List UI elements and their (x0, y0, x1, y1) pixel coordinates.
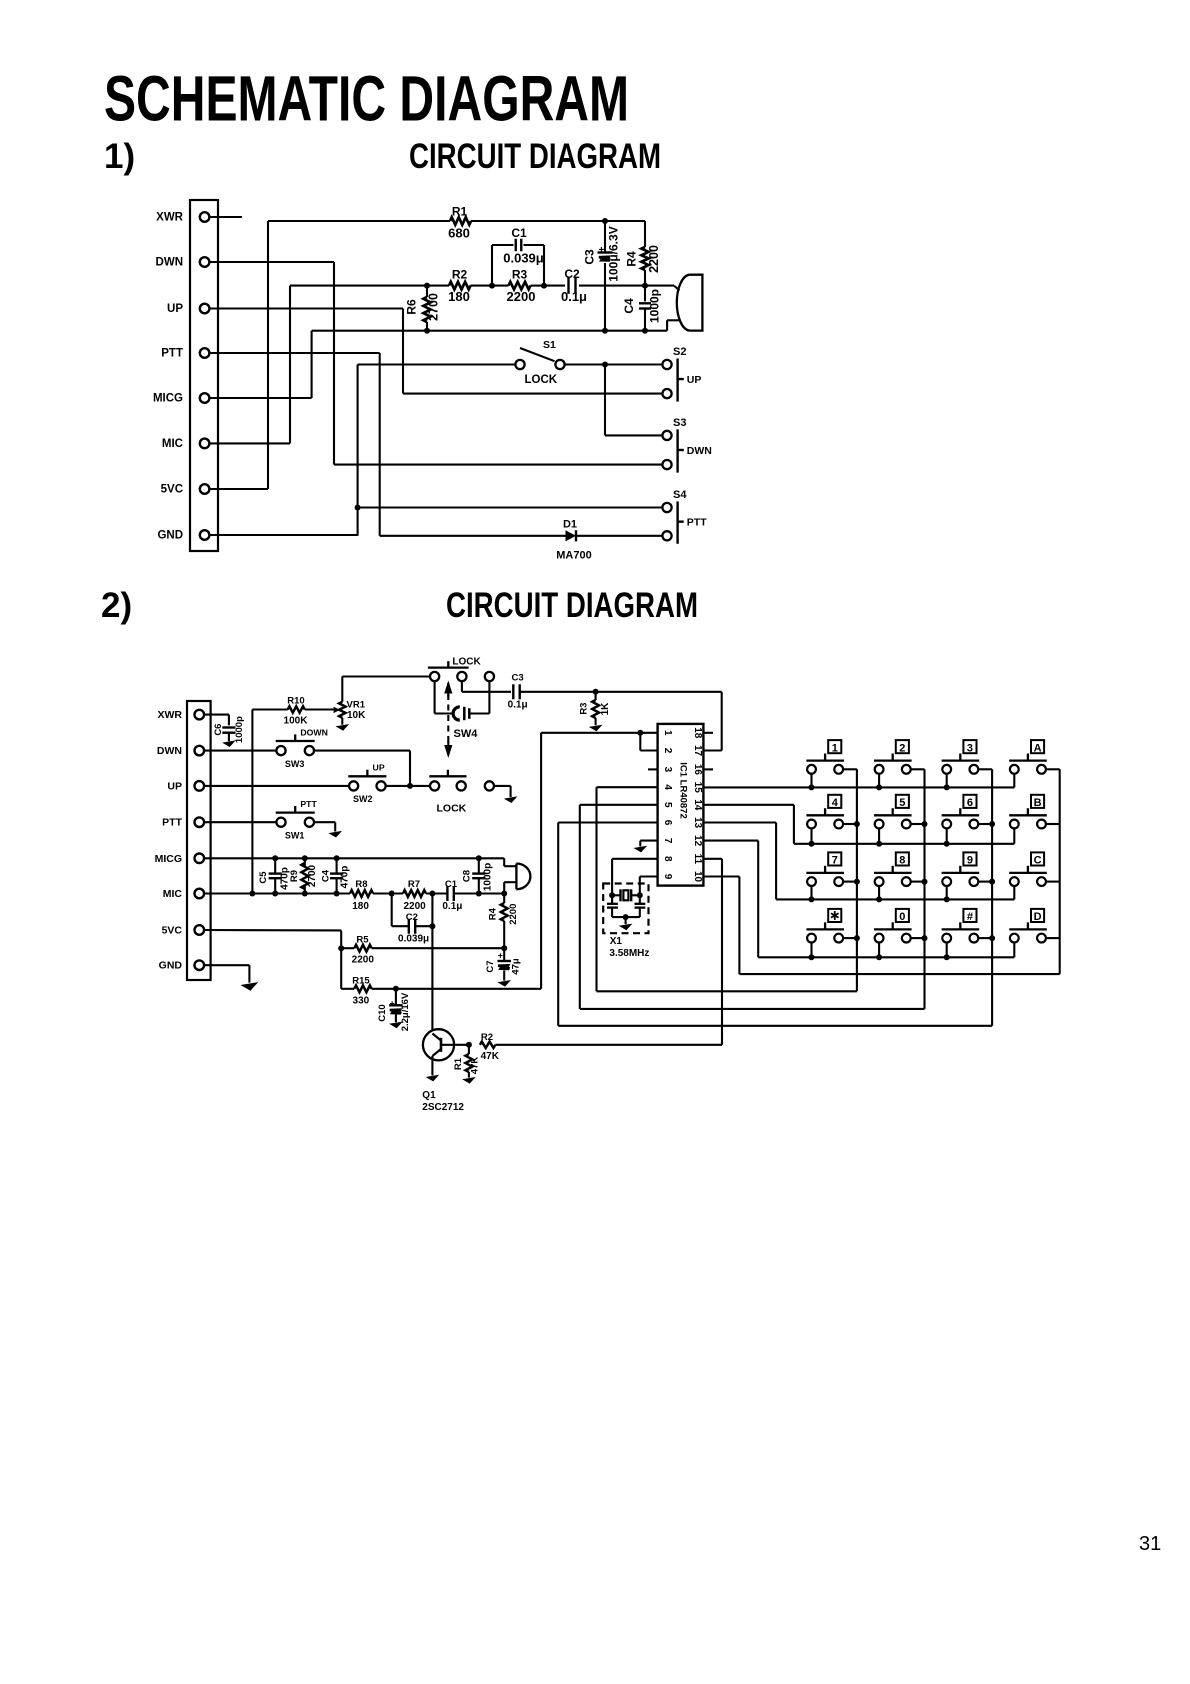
svg-text:XWR: XWR (156, 212, 184, 224)
svg-text:R9: R9 (289, 870, 300, 882)
svg-text:2200: 2200 (508, 904, 519, 925)
svg-text:8: 8 (899, 855, 905, 867)
svg-text:D1: D1 (563, 519, 577, 531)
svg-text:2200: 2200 (647, 245, 661, 273)
svg-text:5VC: 5VC (161, 484, 183, 496)
svg-text:2200: 2200 (352, 955, 375, 966)
svg-text:R2: R2 (481, 1032, 493, 1043)
svg-text:9: 9 (662, 874, 673, 880)
svg-text:Q1: Q1 (422, 1090, 436, 1101)
svg-text:2SC2712: 2SC2712 (422, 1102, 464, 1113)
svg-text:680: 680 (448, 226, 470, 241)
svg-text:R10: R10 (287, 696, 304, 707)
svg-text:47K: 47K (481, 1051, 500, 1062)
svg-text:31: 31 (1139, 1533, 1161, 1555)
svg-text:1000p: 1000p (234, 716, 245, 743)
svg-text:C1: C1 (445, 879, 458, 890)
svg-text:8: 8 (662, 856, 673, 862)
svg-text:1000p: 1000p (648, 289, 662, 323)
svg-text:C: C (1034, 855, 1042, 867)
svg-text:1: 1 (832, 742, 838, 754)
svg-text:R3: R3 (512, 267, 528, 281)
svg-text:R1: R1 (452, 205, 468, 219)
svg-text:IC1 LR40872: IC1 LR40872 (678, 762, 689, 819)
svg-text:2200: 2200 (507, 289, 536, 304)
svg-text:7: 7 (832, 855, 838, 867)
svg-text:3.58MHz: 3.58MHz (609, 948, 649, 959)
svg-text:2): 2) (101, 586, 132, 625)
svg-text:0.039μ: 0.039μ (398, 933, 429, 944)
svg-text:LOCK: LOCK (452, 657, 481, 668)
svg-text:R8: R8 (355, 879, 367, 890)
svg-text:R3: R3 (578, 703, 589, 715)
svg-text:1): 1) (104, 137, 135, 176)
svg-text:S1: S1 (543, 339, 556, 351)
svg-text:0: 0 (899, 911, 905, 923)
svg-text:0.1μ: 0.1μ (508, 700, 528, 711)
svg-text:C3: C3 (512, 673, 524, 684)
svg-text:SCHEMATIC DIAGRAM: SCHEMATIC DIAGRAM (104, 63, 629, 135)
svg-text:SW2: SW2 (353, 794, 373, 804)
svg-text:9: 9 (967, 855, 973, 867)
svg-text:11: 11 (692, 854, 703, 865)
svg-text:C10: C10 (377, 1004, 388, 1021)
svg-text:UP: UP (373, 763, 385, 773)
svg-text:2700: 2700 (307, 864, 318, 887)
svg-text:S4: S4 (673, 489, 687, 501)
svg-text:C3: C3 (583, 249, 597, 265)
svg-text:S3: S3 (673, 417, 686, 429)
svg-text:0.1μ: 0.1μ (561, 289, 587, 304)
svg-text:5VC: 5VC (162, 925, 183, 937)
svg-text:470p: 470p (340, 866, 351, 889)
svg-text:0.1μ: 0.1μ (442, 901, 462, 912)
svg-text:MA700: MA700 (556, 550, 591, 562)
svg-text:1K: 1K (600, 702, 611, 716)
svg-text:UP: UP (167, 303, 183, 315)
svg-text:13: 13 (692, 817, 703, 829)
svg-text:1000p: 1000p (482, 863, 493, 891)
svg-text:2200: 2200 (403, 901, 426, 912)
svg-text:R4: R4 (625, 251, 639, 267)
svg-text:C2: C2 (406, 912, 418, 923)
svg-text:MIC: MIC (162, 438, 183, 450)
svg-text:C8: C8 (462, 870, 473, 882)
svg-text:A: A (1034, 742, 1042, 754)
svg-text:CIRCUIT DIAGRAM: CIRCUIT DIAGRAM (446, 586, 698, 625)
svg-text:C4: C4 (622, 298, 636, 314)
svg-text:MICG: MICG (155, 853, 182, 865)
svg-text:16: 16 (692, 764, 703, 776)
svg-text:CIRCUIT DIAGRAM: CIRCUIT DIAGRAM (409, 137, 661, 176)
svg-text:18: 18 (692, 727, 703, 739)
svg-text:2: 2 (899, 742, 905, 754)
svg-text:UP: UP (687, 374, 702, 386)
svg-text:10K: 10K (347, 710, 366, 721)
svg-text:GND: GND (157, 530, 183, 542)
svg-text:C4: C4 (320, 869, 331, 882)
svg-text:MICG: MICG (153, 393, 183, 405)
svg-text:17: 17 (692, 745, 703, 757)
svg-text:R4: R4 (488, 907, 499, 920)
svg-text:4: 4 (662, 784, 673, 790)
svg-text:180: 180 (352, 901, 369, 912)
svg-text:C1: C1 (511, 226, 527, 240)
svg-text:10: 10 (692, 871, 703, 883)
svg-text:5: 5 (899, 797, 905, 809)
svg-text:LOCK: LOCK (525, 374, 558, 386)
svg-text:B: B (1034, 797, 1042, 809)
svg-text:R5: R5 (356, 934, 369, 945)
svg-text:2700: 2700 (427, 293, 441, 321)
svg-text:DWN: DWN (156, 257, 183, 269)
svg-text:PTT: PTT (300, 799, 317, 809)
svg-text:1: 1 (662, 730, 673, 736)
svg-text:6: 6 (967, 797, 973, 809)
svg-text:3: 3 (662, 767, 673, 773)
svg-text:PTT: PTT (161, 348, 183, 360)
svg-text:D: D (1034, 911, 1042, 923)
svg-text:C6: C6 (213, 724, 224, 736)
svg-text:S2: S2 (673, 346, 686, 358)
svg-text:15: 15 (692, 782, 703, 794)
svg-text:R2: R2 (452, 267, 468, 281)
svg-text:6: 6 (662, 820, 673, 826)
svg-text:SW3: SW3 (285, 759, 305, 769)
svg-text:5: 5 (662, 802, 673, 808)
svg-text:3: 3 (967, 742, 973, 754)
svg-text:4: 4 (832, 797, 839, 809)
svg-text:C7: C7 (485, 960, 496, 972)
svg-text:PTT: PTT (162, 817, 182, 829)
svg-text:12: 12 (692, 835, 703, 847)
svg-text:DWN: DWN (687, 445, 712, 457)
svg-text:+: + (390, 999, 395, 1009)
svg-text:C2: C2 (564, 267, 580, 281)
svg-text:330: 330 (353, 995, 370, 1006)
svg-text:LOCK: LOCK (437, 803, 467, 815)
svg-text:R7: R7 (408, 879, 420, 890)
svg-text:VR1: VR1 (347, 699, 366, 710)
svg-text:GND: GND (159, 960, 183, 972)
svg-text:0.039μ: 0.039μ (503, 251, 544, 266)
svg-text:X1: X1 (610, 936, 623, 947)
svg-text:+: + (498, 951, 503, 961)
svg-text:2: 2 (662, 748, 673, 754)
svg-text:C5: C5 (258, 871, 269, 884)
svg-text:2.2μ/16V: 2.2μ/16V (400, 992, 411, 1031)
svg-text:100K: 100K (284, 715, 309, 726)
svg-text:R1: R1 (453, 1057, 464, 1070)
svg-text:7: 7 (662, 838, 673, 844)
svg-text:180: 180 (448, 289, 470, 304)
svg-text:SW1: SW1 (285, 831, 305, 841)
svg-text:R15: R15 (352, 976, 370, 987)
svg-text:PTT: PTT (687, 517, 707, 529)
svg-text:UP: UP (167, 780, 182, 792)
svg-text:XWR: XWR (158, 709, 183, 721)
svg-text:100μ/6.3V: 100μ/6.3V (607, 226, 621, 281)
svg-text:47μ: 47μ (511, 958, 522, 975)
svg-text:R6: R6 (404, 299, 418, 315)
svg-text:#: # (967, 911, 973, 923)
svg-text:14: 14 (692, 799, 703, 811)
svg-text:SW4: SW4 (454, 728, 479, 740)
svg-text:+: + (599, 245, 605, 256)
svg-text:DOWN: DOWN (300, 727, 328, 737)
svg-text:DWN: DWN (157, 745, 182, 757)
svg-text:MIC: MIC (163, 888, 183, 900)
svg-text:47K: 47K (470, 1057, 481, 1075)
